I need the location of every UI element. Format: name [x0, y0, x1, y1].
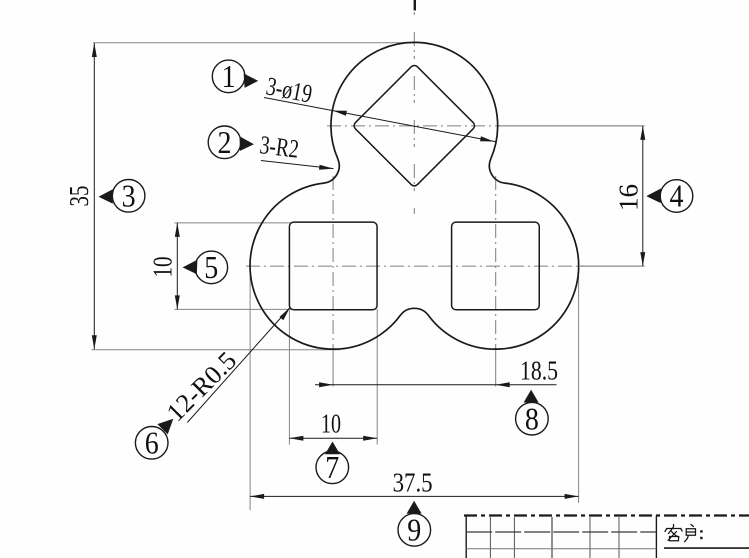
- extension line bottom (35 dim): [92, 349, 341, 351]
- part outline (trefoil): [250, 42, 579, 349]
- callout 5: [195, 251, 228, 284]
- centerline vertical left lobe: [332, 176, 334, 350]
- title block grid horizontals: [466, 531, 656, 533]
- svg-text:37.5: 37.5: [393, 467, 433, 497]
- svg-text:4: 4: [670, 178, 684, 214]
- dimension 35 line: [93, 43, 95, 349]
- right square hole: [452, 222, 540, 310]
- svg-text:18.5: 18.5: [520, 356, 558, 386]
- dia 19 leader line: [264, 98, 496, 142]
- centerline horizontal bottom lobes: [246, 265, 584, 267]
- callout 8: [516, 402, 549, 435]
- dimension 16 line: [642, 126, 644, 266]
- callout 3: [112, 180, 145, 213]
- callout 9: [398, 514, 431, 547]
- callout 1: [212, 60, 245, 93]
- R0.5 leader line: [187, 308, 290, 423]
- svg-text:10: 10: [148, 257, 178, 278]
- extension line left vertical (37.5 dim): [249, 269, 251, 510]
- svg-text:3: 3: [122, 178, 136, 214]
- svg-text:10: 10: [321, 409, 341, 439]
- left square hole: [289, 222, 377, 310]
- dimension 18.5 line: [315, 384, 557, 386]
- extension line top (35 dim): [93, 42, 414, 44]
- svg-text:5: 5: [204, 249, 218, 285]
- svg-text:35: 35: [64, 186, 94, 207]
- callout 2: [208, 126, 241, 159]
- callout 4: [660, 180, 693, 213]
- centerline vertical top circle: [413, 12, 415, 214]
- customer label 客户:: [665, 525, 696, 542]
- svg-text:8: 8: [525, 400, 539, 436]
- R2 leader line: [261, 161, 334, 169]
- extension line square right (10 dim bottom): [376, 309, 378, 445]
- top crop tick: [414, 0, 416, 11]
- diamond hole (rotated square): [352, 64, 476, 188]
- dimension 10 left line: [176, 223, 178, 310]
- centerline horizontal top circle: [327, 125, 500, 127]
- callout 6: [135, 427, 168, 460]
- dimension 37.5 line: [250, 495, 578, 497]
- callout 7: [316, 451, 349, 484]
- extension line 16 bottom: [580, 265, 645, 267]
- extension line right vertical (37.5 dim): [578, 269, 580, 503]
- extension line square left (10 dim bottom): [288, 309, 290, 445]
- svg-text:3-R2: 3-R2: [258, 130, 300, 164]
- title block grid verticals: [465, 516, 467, 558]
- dimension 10 bottom line: [289, 437, 377, 439]
- extension line square bottom (10 dim left): [175, 308, 292, 310]
- svg-text:1: 1: [222, 58, 236, 94]
- extension line square top (10 dim left): [175, 222, 292, 224]
- svg-text:6: 6: [145, 425, 159, 461]
- svg-text:16: 16: [614, 184, 644, 211]
- svg-text:9: 9: [407, 512, 421, 548]
- svg-text:7: 7: [325, 449, 339, 485]
- centerline vertical right lobe: [495, 176, 497, 350]
- title block top dash-dot border: [464, 514, 749, 516]
- customer underline: [664, 547, 749, 549]
- extension line 16 top: [497, 125, 645, 127]
- svg-text:2: 2: [218, 124, 232, 160]
